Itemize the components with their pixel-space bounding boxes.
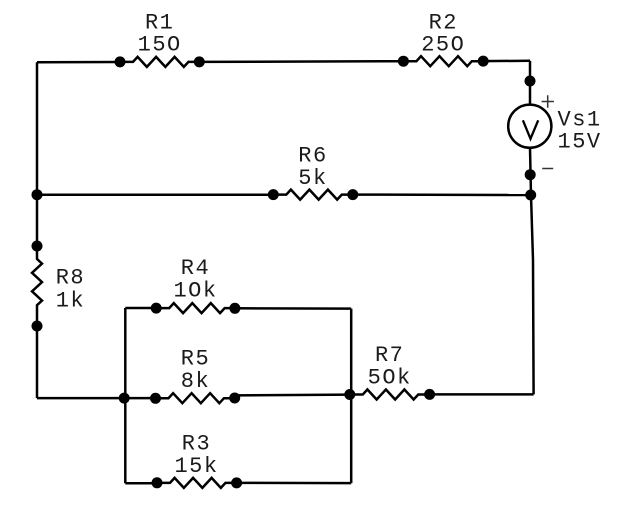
svg-text:R4: R4 [181,256,210,281]
svg-text:15O: 15O [138,33,182,58]
svg-text:R5: R5 [181,347,210,372]
svg-text:R6: R6 [298,144,327,169]
svg-text:8k: 8k [181,369,210,394]
svg-text:R7: R7 [375,343,404,368]
svg-text:1Ok: 1Ok [173,279,217,304]
svg-text:5k: 5k [298,166,327,191]
svg-text:15V: 15V [558,129,602,154]
svg-text:R3: R3 [182,432,211,457]
svg-text:1k: 1k [56,288,85,313]
svg-text:R8: R8 [56,266,85,291]
svg-text:5Ok: 5Ok [368,365,412,390]
svg-text:25O: 25O [421,33,465,58]
svg-text:15k: 15k [174,454,218,479]
